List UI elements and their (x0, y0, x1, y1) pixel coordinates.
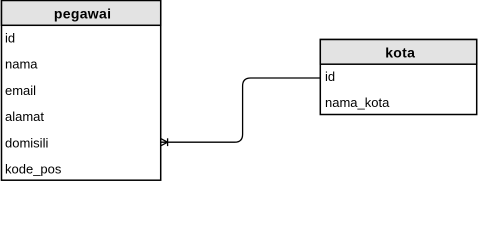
svg-text:id: id (5, 31, 15, 46)
table pegawai header (2, 1, 161, 26)
svg-text:email: email (5, 83, 36, 98)
svg-text:kota: kota (385, 45, 415, 61)
relationship wire pegawai.domisili to kota.id (168, 78, 321, 142)
table kota body (320, 40, 476, 115)
mandatory tick at pegawai end (167, 138, 169, 146)
table pegawai body (2, 1, 161, 181)
svg-text:domisili: domisili (5, 135, 48, 150)
svg-text:id: id (325, 69, 335, 84)
svg-text:alamat: alamat (5, 109, 44, 124)
svg-text:nama_kota: nama_kota (325, 95, 390, 110)
svg-text:nama: nama (5, 57, 38, 72)
svg-text:pegawai: pegawai (54, 6, 111, 22)
svg-text:kode_pos: kode_pos (5, 162, 62, 177)
crow's foot (many) at pegawai (160, 138, 167, 146)
table kota header (320, 40, 476, 65)
